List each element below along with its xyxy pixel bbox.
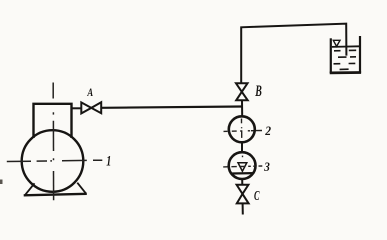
- vessel 1 neck: [34, 104, 72, 138]
- wire valve A to column: [101, 107, 242, 108]
- label 3: [263, 159, 270, 174]
- wire component 2 to component 3: [241, 142, 243, 152]
- svg-text:1: 1: [106, 154, 111, 170]
- component 3 (filter): [229, 152, 256, 179]
- wire drain outlet: [242, 203, 244, 214]
- vessel 1 body: [22, 130, 84, 192]
- component 3 internal chord: [231, 172, 253, 175]
- svg-text:C: C: [254, 189, 260, 204]
- label 2: [264, 123, 271, 138]
- label C: [254, 189, 260, 204]
- tank level symbol: [333, 40, 340, 46]
- valve C: [237, 185, 249, 204]
- vessel stand: [24, 183, 87, 196]
- svg-text:2: 2: [264, 123, 271, 138]
- wire vessel to valve A: [72, 107, 82, 109]
- svg-text:A: A: [87, 87, 94, 99]
- tank liquid surface: [332, 45, 359, 48]
- tank walls: [330, 36, 361, 73]
- vessel horizontal centerline: [7, 160, 103, 161]
- valve A: [81, 102, 101, 113]
- component 3 internal triangle: [238, 163, 247, 172]
- svg-text:B: B: [255, 83, 262, 100]
- label B: [255, 83, 262, 100]
- wire top run to tank: [241, 24, 346, 83]
- label A: [87, 87, 94, 99]
- label 1: [106, 154, 111, 170]
- component 2 centerlines: [224, 119, 263, 138]
- wire component 3 to valve C: [241, 179, 243, 185]
- vessel vertical centerline: [52, 83, 54, 201]
- tank liquid dashes: [334, 50, 357, 69]
- scan speck: [0, 180, 3, 185]
- component 2 (pump): [229, 116, 255, 142]
- valve B: [236, 83, 248, 100]
- svg-text:3: 3: [263, 159, 270, 174]
- component 3 centerline: [223, 156, 262, 167]
- wire valve B to component 2: [241, 100, 243, 117]
